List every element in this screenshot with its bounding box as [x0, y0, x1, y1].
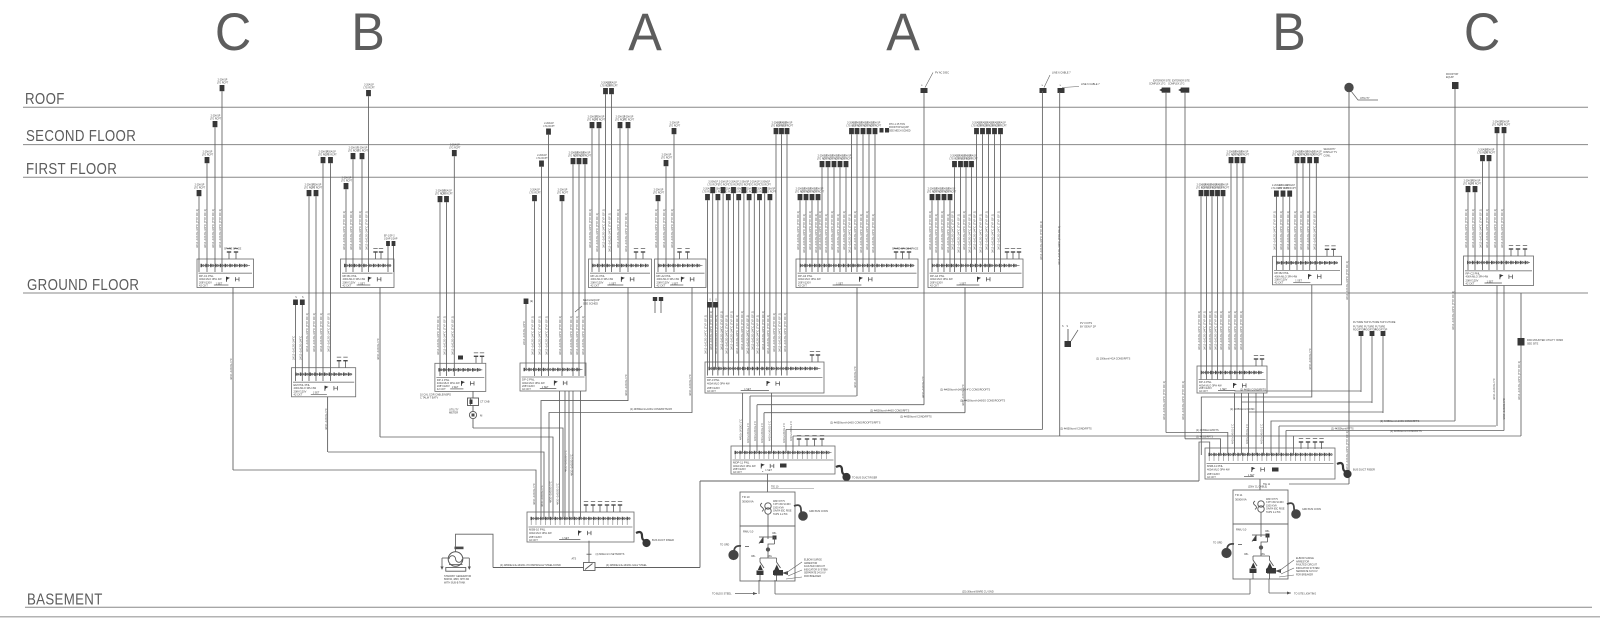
svg-text:3#12+1#12G-3/4"C (TYP OF 3): 3#12+1#12G-3/4"C (TYP OF 3) [704, 315, 708, 354]
svg-text:2-20A/1P: 2-20A/1P [211, 115, 221, 118]
svg-text:3#12+1#12G-3/4"C (TYP OF 3): 3#12+1#12G-3/4"C (TYP OF 3) [349, 211, 353, 250]
svg-text:1 SET: 1 SET [216, 282, 223, 285]
svg-text:GRD BUS CONN: GRD BUS CONN [1302, 508, 1321, 511]
svg-text:3#12+1#12G-3/4"C (TYP OF 3): 3#12+1#12G-3/4"C (TYP OF 3) [745, 315, 749, 354]
svg-text:TR 10: TR 10 [742, 495, 750, 499]
svg-text:2-20A/1P: 2-20A/1P [1285, 184, 1295, 187]
svg-text:LTG RCPT: LTG RCPT [841, 159, 853, 161]
svg-text:(2) 4#350 COND/RFTS: (2) 4#350 COND/RFTS [1240, 389, 1266, 392]
svg-text:3#12+1#12G-3/4"C (TYP OF 3): 3#12+1#12G-3/4"C (TYP OF 3) [1227, 311, 1231, 350]
svg-text:1/2HP 1/2HP: 1/2HP 1/2HP [384, 239, 398, 241]
svg-text:3#12+1#12G-3/4"C (TYP OF 3): 3#12+1#12G-3/4"C (TYP OF 3) [1345, 431, 1349, 470]
svg-text:3#12+1#12G-3/4"C (TYP OF 3): 3#12+1#12G-3/4"C (TYP OF 3) [1208, 311, 1212, 350]
svg-text:LTG RCPT: LTG RCPT [945, 192, 957, 194]
svg-text:1 SET: 1 SET [959, 282, 966, 285]
svg-text:(2) 4#350kcmil COND/RFTS: (2) 4#350kcmil COND/RFTS [1390, 430, 1422, 433]
svg-text:2-20A/1P: 2-20A/1P [607, 82, 617, 85]
svg-text:LTG RCPT: LTG RCPT [1218, 188, 1230, 190]
svg-text:LTG RCPT: LTG RCPT [995, 126, 1007, 128]
svg-text:3#12+1#12G-3/4"C (TYP OF 3): 3#12+1#12G-3/4"C (TYP OF 3) [327, 313, 331, 352]
svg-text:2-20A/1P: 2-20A/1P [624, 116, 634, 119]
svg-text:2-20A/1P: 2-20A/1P [967, 155, 977, 158]
svg-text:2-20A/1P: 2-20A/1P [312, 184, 322, 187]
svg-text:2-20A/1P: 2-20A/1P [1239, 151, 1249, 154]
svg-text:(4) 4#600kcmil+1#4/0G GALV STE: (4) 4#600kcmil+1#4/0G GALV STEEL [606, 564, 647, 567]
svg-text:WITH SUB-B TANK: WITH SUB-B TANK [444, 581, 466, 584]
svg-text:LTG RCPT: LTG RCPT [813, 192, 825, 194]
svg-text:(2) 4#350/RFTS: (2) 4#350/RFTS [1196, 436, 1214, 439]
svg-text:3#12+1#12G-3/4"C (TYP OF 3): 3#12+1#12G-3/4"C (TYP OF 3) [1485, 209, 1489, 248]
svg-text:3#12+1#12G-3/4"C (TYP OF 3): 3#12+1#12G-3/4"C (TYP OF 3) [358, 211, 362, 250]
svg-text:3#12+1#12G-3/4"C (TYP OF 3): 3#12+1#12G-3/4"C (TYP OF 3) [1306, 211, 1310, 250]
svg-text:3#12+1#12G-3/4"C (TYP OF 3): 3#12+1#12G-3/4"C (TYP OF 3) [985, 211, 989, 250]
svg-text:3#12+1#12G-3/4"C (TYP OF 3): 3#12+1#12G-3/4"C (TYP OF 3) [195, 209, 199, 248]
svg-text:1 SET: 1 SET [836, 282, 843, 285]
svg-text:RMU 10: RMU 10 [1236, 528, 1247, 532]
svg-text:3#12+1#12G-3/4"C (TYP OF 3): 3#12+1#12G-3/4"C (TYP OF 3) [602, 209, 606, 248]
svg-text:LTG RCPT: LTG RCPT [594, 120, 606, 122]
svg-text:2-20A/1P: 2-20A/1P [218, 79, 228, 82]
svg-text:ROOF: ROOF [25, 91, 65, 108]
svg-text:2-20A/1P: 2-20A/1P [1500, 121, 1510, 124]
svg-text:LTG RCPT: LTG RCPT [653, 193, 665, 195]
svg-text:C TALM T EATV: C TALM T EATV [420, 397, 438, 400]
svg-text:3#12+1#12G-3/4"C (TYP OF 3): 3#12+1#12G-3/4"C (TYP OF 3) [451, 316, 455, 355]
svg-text:3#12+1#12G-3/4"C (TYP OF 3): 3#12+1#12G-3/4"C (TYP OF 3) [725, 315, 729, 354]
svg-text:3#12+1#12G-3/4"C (TYP OF 3): 3#12+1#12G-3/4"C (TYP OF 3) [824, 214, 828, 253]
svg-text:3#12+1#12G-3/4"C (TYP OF 3): 3#12+1#12G-3/4"C (TYP OF 3) [808, 211, 812, 250]
svg-text:3#12+1#12G-3/4"C (TYP OF 3): 3#12+1#12G-3/4"C (TYP OF 3) [735, 315, 739, 354]
svg-text:4#10+1#10G-1"C: 4#10+1#10G-1"C [1245, 424, 1249, 444]
svg-text:TO SITE LIGHTING: TO SITE LIGHTING [1294, 593, 1316, 596]
svg-text:3#12+1#12G-3/4"C (TYP OF 3): 3#12+1#12G-3/4"C (TYP OF 3) [859, 214, 863, 253]
svg-text:LTG RCPT: LTG RCPT [341, 181, 353, 183]
svg-text:2-20A/1P: 2-20A/1P [1485, 149, 1495, 152]
svg-text:SEE MECH SCHED: SEE MECH SCHED [889, 129, 911, 132]
svg-text:LTG RCPT: LTG RCPT [363, 88, 375, 90]
svg-text:LTG RCPT: LTG RCPT [1311, 155, 1323, 157]
svg-text:LTG RCPT: LTG RCPT [449, 148, 461, 150]
svg-text:SPARE SPACE: SPARE SPACE [224, 248, 242, 251]
svg-text:3#12+1#12G-3/4"C (TYP OF 3): 3#12+1#12G-3/4"C (TYP OF 3) [1313, 211, 1317, 250]
svg-text:3#12+1#12G-3/4"C (TYP OF 3): 3#12+1#12G-3/4"C (TYP OF 3) [616, 209, 620, 248]
svg-text:42 CKT: 42 CKT [1466, 281, 1475, 285]
svg-text:2-20A/1P: 2-20A/1P [740, 181, 750, 184]
svg-text:4#10+1#10G-1"C: 4#10+1#10G-1"C [1260, 424, 1264, 444]
svg-text:4#10+1#10G-1"C: 4#10+1#10G-1"C [782, 423, 786, 443]
svg-text:C: C [215, 2, 251, 61]
svg-text:TO BUS DUCT RISER: TO BUS DUCT RISER [852, 477, 877, 480]
svg-text:3#12+1#12G-3/4"C (TYP OF 3): 3#12+1#12G-3/4"C (TYP OF 3) [766, 315, 770, 354]
svg-text:1 SET: 1 SET [1487, 280, 1494, 283]
svg-text:1 SET: 1 SET [1248, 474, 1255, 477]
svg-text:3#12+1#12G-3/4"C (TYP OF 3): 3#12+1#12G-3/4"C (TYP OF 3) [1219, 311, 1223, 350]
svg-text:(4) 4#600kcmil+1#4/0G 4"C/NSPD: (4) 4#600kcmil+1#4/0G 4"C/NSPD/GALV STEE… [500, 564, 561, 567]
svg-text:4#10+1#10G-1"C: 4#10+1#10G-1"C [853, 366, 857, 388]
svg-text:FUTURE TAP FUTURE TAP FUTURE: FUTURE TAP FUTURE TAP FUTURE [1353, 321, 1396, 324]
svg-text:3#12+1#12G-3/4"C (TYP OF 3): 3#12+1#12G-3/4"C (TYP OF 3) [1273, 211, 1277, 250]
svg-text:(2) 4#350kcmil COND: (2) 4#350kcmil COND [1230, 408, 1255, 411]
svg-text:42 CKT: 42 CKT [437, 387, 446, 391]
svg-text:4#10+1#10G-1"C: 4#10+1#10G-1"C [549, 481, 553, 503]
svg-text:3#12+1#12G-3/4"C (TYP OF 3): 3#12+1#12G-3/4"C (TYP OF 3) [1493, 209, 1497, 248]
svg-text:4#10+1#10G-1"C: 4#10+1#10G-1"C [376, 338, 380, 360]
svg-text:2-20A/1P: 2-20A/1P [729, 181, 739, 184]
svg-text:(4) 600kcmil 4 SETS/RFTS: (4) 600kcmil 4 SETS/RFTS [596, 553, 625, 556]
svg-text:(2) 4#350kcmil+1#3G COND/RFTS: (2) 4#350kcmil+1#3G COND/RFTS [1380, 420, 1420, 423]
svg-text:3#12+1#12G-3/4"C (TYP OF 3): 3#12+1#12G-3/4"C (TYP OF 3) [218, 209, 222, 248]
svg-text:1 SET: 1 SET [744, 388, 751, 391]
svg-text:PV AC DISC: PV AC DISC [935, 72, 949, 75]
svg-text:3#12+1#12G-3/4"C (TYP OF 3): 3#12+1#12G-3/4"C (TYP OF 3) [934, 214, 938, 253]
svg-text:2-20A/1P: 2-20A/1P [558, 189, 568, 192]
svg-text:3#12+1#12G-3/4"C (TYP OF 3): 3#12+1#12G-3/4"C (TYP OF 3) [1239, 311, 1243, 350]
svg-text:CBL: CBL [768, 556, 773, 558]
svg-text:4#10+1#10G-1"C: 4#10+1#10G-1"C [570, 454, 574, 476]
svg-text:2-20A/1P: 2-20A/1P [595, 116, 605, 119]
svg-text:S: S [295, 297, 297, 299]
svg-text:4#10+1#10G-1"C: 4#10+1#10G-1"C [789, 421, 793, 441]
svg-text:4#10+1#10G-1"C: 4#10+1#10G-1"C [739, 419, 743, 440]
svg-text:(2) 4#350kcmil/RFTS: (2) 4#350kcmil/RFTS [1196, 429, 1219, 432]
svg-text:CBL: CBL [1244, 554, 1249, 556]
svg-text:3#12+1#12G-3/4"C (TYP OF 3): 3#12+1#12G-3/4"C (TYP OF 3) [719, 311, 723, 350]
svg-text:3#12+1#12G-3/4"C (TYP OF 3): 3#12+1#12G-3/4"C (TYP OF 3) [305, 313, 309, 352]
svg-text:3#12+1#12G-3/4"C (TYP OF 3): 3#12+1#12G-3/4"C (TYP OF 3) [818, 211, 822, 250]
svg-text:(2) 100kcmil 4CA COND/RFTS: (2) 100kcmil 4CA COND/RFTS [1096, 358, 1131, 361]
svg-text:1 SET: 1 SET [358, 282, 365, 285]
svg-text:42 CKT: 42 CKT [1199, 389, 1208, 393]
svg-text:4#10+1#10G-1"C: 4#10+1#10G-1"C [760, 423, 764, 443]
svg-text:PV 3 KITS: PV 3 KITS [1080, 321, 1092, 325]
svg-text:LTG RCPT: LTG RCPT [760, 185, 772, 187]
svg-text:42 CKT: 42 CKT [522, 387, 531, 391]
svg-text:3#12+1#12G-3/4"C (TYP OF 3): 3#12+1#12G-3/4"C (TYP OF 3) [802, 214, 806, 253]
svg-text:LTG RCPT: LTG RCPT [325, 155, 337, 157]
svg-text:(2) 4#350kcmil COND/RFTS: (2) 4#350kcmil COND/RFTS [1060, 428, 1092, 431]
svg-text:3#12+1#12G-3/4"C (TYP OF 3): 3#12+1#12G-3/4"C (TYP OF 3) [581, 316, 585, 355]
svg-text:3#12+1#12G-3/4"C (TYP OF 3): 3#12+1#12G-3/4"C (TYP OF 3) [203, 209, 207, 248]
svg-text:C: C [1464, 2, 1500, 61]
svg-text:42 CKT: 42 CKT [733, 470, 742, 474]
svg-text:LTG RCPT: LTG RCPT [311, 188, 323, 190]
svg-text:A: A [886, 2, 920, 61]
svg-text:EF-1 EF-2: EF-1 EF-2 [384, 236, 395, 238]
svg-text:3#12+1#12G-3/4"C (TYP OF 3): 3#12+1#12G-3/4"C (TYP OF 3) [979, 214, 983, 253]
svg-text:3#12+1#12G-3/4"C (TYP OF 3): 3#12+1#12G-3/4"C (TYP OF 3) [624, 213, 628, 252]
svg-text:2-20A/1P: 2-20A/1P [358, 147, 368, 150]
svg-text:RMU 10: RMU 10 [743, 530, 754, 534]
svg-text:S: S [715, 299, 717, 301]
svg-text:42 CKT: 42 CKT [707, 389, 716, 393]
svg-text:4#10+1#10G-1"C: 4#10+1#10G-1"C [961, 384, 965, 406]
svg-text:3#12+1#12G-3/4"C (TYP OF 3): 3#12+1#12G-3/4"C (TYP OF 3) [865, 211, 869, 250]
svg-text:TIE 10: TIE 10 [771, 486, 779, 489]
svg-text:1 SET: 1 SET [765, 469, 772, 472]
svg-text:2-20A/1P: 2-20A/1P [537, 154, 547, 157]
svg-text:3#12+1#12G-3/4"C (TYP OF 3): 3#12+1#12G-3/4"C (TYP OF 3) [1299, 211, 1303, 250]
svg-text:LTG RCPT: LTG RCPT [782, 126, 794, 128]
svg-text:2-20A/1P: 2-20A/1P [766, 188, 776, 191]
svg-text:(E): (E) [530, 301, 533, 303]
svg-text:4#10+1#10G-1"C: 4#10+1#10G-1"C [556, 483, 560, 505]
svg-text:400A MLO 3PH 4W: 400A MLO 3PH 4W [1466, 275, 1489, 279]
svg-text:3#12+1#12G-3/4"C (TYP OF 3): 3#12+1#12G-3/4"C (TYP OF 3) [997, 211, 1001, 250]
svg-text:BUS DUCT RISER: BUS DUCT RISER [652, 538, 674, 542]
svg-text:GRD BUS CONN: GRD BUS CONN [809, 510, 828, 513]
svg-text:3#12+1#12G-3/4"C (TYP OF 3): 3#12+1#12G-3/4"C (TYP OF 3) [654, 209, 658, 248]
svg-text:2-20A/1P: 2-20A/1P [783, 122, 793, 125]
svg-text:3#12+1#12G-3/4"C (TYP OF 3): 3#12+1#12G-3/4"C (TYP OF 3) [756, 315, 760, 354]
svg-text:LTG RCPT: LTG RCPT [1499, 125, 1511, 127]
svg-text:4#10+1#10G-1"C: 4#10+1#10G-1"C [753, 421, 757, 441]
svg-text:3#12+1#12G-3/4"C (TYP OF 3): 3#12+1#12G-3/4"C (TYP OF 3) [761, 311, 765, 350]
svg-text:42 CKT: 42 CKT [343, 283, 352, 287]
svg-text:3#12+1#12G-3/4"C (TYP OF 3): 3#12+1#12G-3/4"C (TYP OF 3) [830, 211, 834, 250]
svg-text:2#12+1#12G-3/4"C: 2#12+1#12G-3/4"C [299, 336, 303, 360]
svg-text:2-20A/1P: 2-20A/1P [326, 151, 336, 154]
svg-text:2#12+1#12G-3/4"C: 2#12+1#12G-3/4"C [522, 321, 526, 345]
svg-text:2-20A/1P: 2-20A/1P [708, 181, 718, 184]
svg-text:2-20A/1P: 2-20A/1P [654, 189, 664, 192]
svg-text:3#12+1#12G-3/4"C (TYP OF 3): 3#12+1#12G-3/4"C (TYP OF 3) [951, 211, 955, 250]
svg-text:TAPS 2-2.5%: TAPS 2-2.5% [773, 513, 788, 516]
svg-text:400A MLO 3PH 4W: 400A MLO 3PH 4W [294, 386, 317, 390]
svg-text:S: S [302, 297, 304, 299]
svg-text:3#12+1#12G-3/4"C (TYP OF 3): 3#12+1#12G-3/4"C (TYP OF 3) [1057, 226, 1061, 265]
svg-text:3000KVA: 3000KVA [1235, 498, 1247, 502]
svg-text:(2) 4#600kcmil+1#3/0G-4"C CON: (2) 4#600kcmil+1#3/0G-4"C COND/ROOFTS [940, 389, 990, 392]
svg-text:3#12+1#12G-3/4"C (TYP OF 3): 3#12+1#12G-3/4"C (TYP OF 3) [342, 211, 346, 250]
svg-text:(2) 4#350kcmil+1#3G COND/ROOFT: (2) 4#350kcmil+1#3G COND/ROOFTS/RFTS [830, 422, 881, 425]
svg-text:42 CKT: 42 CKT [591, 283, 600, 287]
svg-text:UTILITY: UTILITY [1360, 96, 1370, 100]
svg-text:B: B [351, 2, 385, 61]
svg-text:3#12+1#12G-3/4"C (TYP OF 3): 3#12+1#12G-3/4"C (TYP OF 3) [365, 211, 369, 250]
svg-text:2-20A/1P: 2-20A/1P [1312, 151, 1322, 154]
svg-text:3#12+1#12G-3/4"C (TYP OF 3): 3#12+1#12G-3/4"C (TYP OF 3) [1464, 209, 1468, 248]
svg-text:BASEMENT: BASEMENT [27, 591, 103, 608]
svg-text:3#12+1#12G-3/4"C (TYP OF 3): 3#12+1#12G-3/4"C (TYP OF 3) [588, 209, 592, 248]
svg-text:42 CKT: 42 CKT [1275, 281, 1284, 285]
svg-text:2-20A/1P: 2-20A/1P [662, 154, 672, 157]
svg-text:3#12+1#12G-3/4"C (TYP OF 3): 3#12+1#12G-3/4"C (TYP OF 3) [670, 209, 674, 248]
svg-text:BY GEN F 2P: BY GEN F 2P [1080, 324, 1096, 328]
svg-text:M: M [480, 414, 483, 418]
svg-text:400A MLO 3PH 4W: 400A MLO 3PH 4W [707, 381, 730, 385]
svg-text:42 CKT: 42 CKT [1207, 475, 1216, 479]
svg-text:2-20A/1P: 2-20A/1P [760, 181, 770, 184]
svg-text:LTG RCPT: LTG RCPT [661, 158, 673, 160]
svg-text:3#12+1#12G-3/4"C (TYP OF 3): 3#12+1#12G-3/4"C (TYP OF 3) [211, 209, 215, 248]
svg-text:TR 11: TR 11 [1235, 493, 1243, 497]
svg-text:4#10+1#10G-1"C: 4#10+1#10G-1"C [532, 483, 536, 505]
svg-text:3#12+1#12G-3/4"C (TYP OF 3): 3#12+1#12G-3/4"C (TYP OF 3) [778, 313, 782, 352]
svg-text:3#12+1#12G-3/4"C (TYP OF 3): 3#12+1#12G-3/4"C (TYP OF 3) [853, 211, 857, 250]
svg-text:MECH EQUIP: MECH EQUIP [583, 298, 600, 302]
svg-text:400A MLO 3PH 4W: 400A MLO 3PH 4W [529, 531, 552, 535]
svg-text:(2) 4#350kcmil+1#3G COND/RFTS/: (2) 4#350kcmil+1#3G COND/RFTS/WX [630, 408, 672, 411]
svg-text:4#10+1#10G-1"C: 4#10+1#10G-1"C [624, 374, 628, 396]
svg-text:3#12+1#12G-3/4"C (TYP OF 3): 3#12+1#12G-3/4"C (TYP OF 3) [531, 316, 535, 355]
svg-text:BUS DUCT RISER: BUS DUCT RISER [1353, 468, 1375, 472]
svg-text:SEE SITE: SEE SITE [1527, 342, 1539, 345]
svg-text:LTG RCPT: LTG RCPT [441, 194, 453, 196]
svg-text:COMPLEX LTG: COMPLEX LTG [1149, 84, 1166, 86]
svg-text:2-20A/1P: 2-20A/1P [195, 184, 205, 187]
svg-text:LTG RCPT: LTG RCPT [1470, 184, 1482, 186]
svg-text:4#10+1#10G-1"C: 4#10+1#10G-1"C [1492, 378, 1496, 400]
svg-text:3#12+1#12G-3/4"C (TYP OF 3): 3#12+1#12G-3/4"C (TYP OF 3) [575, 316, 579, 355]
svg-text:3#12+1#12G-3/4"C (TYP OF 3): 3#12+1#12G-3/4"C (TYP OF 3) [1214, 311, 1218, 350]
svg-text:2-20A/1P: 2-20A/1P [670, 122, 680, 125]
svg-text:1 SET: 1 SET [672, 282, 679, 285]
svg-text:3#12+1#12G-3/4"C (TYP OF 3): 3#12+1#12G-3/4"C (TYP OF 3) [558, 316, 562, 355]
svg-text:LTG RCPT: LTG RCPT [1238, 155, 1250, 157]
svg-text:4#10+1#10G-1"C: 4#10+1#10G-1"C [540, 485, 544, 507]
svg-text:S: S [1067, 326, 1069, 328]
svg-text:3#12+1#12G-3/4"C (TYP OF 3): 3#12+1#12G-3/4"C (TYP OF 3) [319, 313, 323, 352]
svg-text:4#10+1#10G-1"C: 4#10+1#10G-1"C [746, 423, 750, 443]
svg-text:TAPS 2-2.5%: TAPS 2-2.5% [1266, 511, 1281, 514]
svg-text:CBL: CBL [1265, 531, 1270, 533]
svg-text:(2) 4#500kcmil+4#3G COND/RFTS: (2) 4#500kcmil+4#3G COND/RFTS [870, 410, 910, 413]
svg-text:3#12+1#12G-3/4"C (TYP OF 3): 3#12+1#12G-3/4"C (TYP OF 3) [1203, 311, 1207, 350]
svg-text:LTG RCPT: LTG RCPT [357, 151, 369, 153]
svg-text:LTG RCPT: LTG RCPT [194, 188, 206, 190]
svg-text:3#12+1#12G-3/4"C (TYP OF 3): 3#12+1#12G-3/4"C (TYP OF 3) [991, 214, 995, 253]
svg-text:3#12+1#12G-3/4"C (TYP OF 3): 3#12+1#12G-3/4"C (TYP OF 3) [436, 316, 440, 355]
svg-text:3#12+1#12G-3/4"C (TYP OF 3): 3#12+1#12G-3/4"C (TYP OF 3) [545, 316, 549, 355]
svg-text:3#12+1#12G-3/4"C (TYP OF 3): 3#12+1#12G-3/4"C (TYP OF 3) [1039, 221, 1043, 260]
svg-text:2#12+1#12G-3/4"C: 2#12+1#12G-3/4"C [292, 336, 296, 360]
svg-text:4#10+1#10G-1"C: 4#10+1#10G-1"C [564, 450, 568, 472]
svg-text:2-20A/1P: 2-20A/1P [544, 122, 554, 125]
svg-text:3#12+1#12G-3/4"C (TYP OF 3): 3#12+1#12G-3/4"C (TYP OF 3) [946, 214, 950, 253]
svg-text:3#12+1#12G-3/4"C (TYP OF 3): 3#12+1#12G-3/4"C (TYP OF 3) [772, 313, 776, 352]
svg-text:SEE SCHED: SEE SCHED [583, 301, 598, 305]
svg-text:LTG RCPT: LTG RCPT [669, 126, 681, 128]
svg-text:2-20A/1P: 2-20A/1P [342, 177, 352, 180]
svg-text:CBL: CBL [751, 556, 756, 558]
svg-text:3#12+1#12G-3/4"C (TYP OF 3): 3#12+1#12G-3/4"C (TYP OF 3) [714, 315, 718, 354]
svg-text:1 SET: 1 SET [1295, 280, 1302, 283]
svg-text:3000KVA: 3000KVA [742, 500, 754, 504]
svg-text:3#12+1#12G-3/4"C (TYP OF 3): 3#12+1#12G-3/4"C (TYP OF 3) [1197, 311, 1201, 350]
svg-text:4#10+1#10G-1"C: 4#10+1#10G-1"C [1308, 348, 1312, 370]
svg-text:LTG RCPT: LTG RCPT [765, 192, 777, 194]
svg-text:EXTERIOR SITE: EXTERIOR SITE [1153, 80, 1171, 82]
svg-text:S: S [1062, 326, 1064, 328]
svg-text:3#12+1#12G-3/4"C (TYP OF 3): 3#12+1#12G-3/4"C (TYP OF 3) [538, 316, 542, 355]
svg-text:3#12+1#12G-3/4"C (TYP OF 3): 3#12+1#12G-3/4"C (TYP OF 3) [443, 316, 447, 355]
svg-text:3#12+1#12G-3/4"C (TYP OF 3): 3#12+1#12G-3/4"C (TYP OF 3) [730, 311, 734, 350]
svg-text:2-20A/1P: 2-20A/1P [871, 122, 881, 125]
svg-text:3#12+1#12G-3/4"C (TYP OF 3): 3#12+1#12G-3/4"C (TYP OF 3) [595, 213, 599, 252]
svg-text:3#12+1#12G-3/4"C (TYP OF 3): 3#12+1#12G-3/4"C (TYP OF 3) [1451, 291, 1455, 330]
svg-text:42 CKT: 42 CKT [199, 283, 208, 287]
svg-text:3#12+1#12G-3/4"C (TYP OF 3): 3#12+1#12G-3/4"C (TYP OF 3) [1279, 211, 1283, 250]
svg-text:LTG RCPT: LTG RCPT [529, 193, 541, 195]
svg-text:3#12+1#12G-3/4"C (TYP OF 3): 3#12+1#12G-3/4"C (TYP OF 3) [1517, 361, 1521, 400]
svg-text:2-20A/1P: 2-20A/1P [996, 122, 1006, 125]
svg-text:3#12+1#12G-3/4"C (TYP OF 3): 3#12+1#12G-3/4"C (TYP OF 3) [928, 211, 932, 250]
svg-text:TO GRD: TO GRD [720, 544, 730, 547]
svg-text:EXTERIOR SITE: EXTERIOR SITE [1172, 80, 1190, 82]
svg-text:3#12+1#12G-3/4"C (TYP OF 3): 3#12+1#12G-3/4"C (TYP OF 3) [608, 213, 612, 252]
svg-text:LTG RCPT: LTG RCPT [580, 156, 592, 158]
svg-text:42 CKT: 42 CKT [930, 283, 939, 287]
svg-text:GROUND FLOOR: GROUND FLOOR [27, 277, 139, 294]
svg-text:S: S [1042, 85, 1044, 87]
svg-text:FDR BREAKER: FDR BREAKER [1296, 574, 1313, 577]
svg-text:4#10+1#10G-1"C: 4#10+1#10G-1"C [229, 358, 233, 380]
svg-text:2-20A/1P: 2-20A/1P [203, 151, 213, 154]
svg-text:LTG RCPT: LTG RCPT [210, 119, 222, 121]
svg-text:EQUIP: EQUIP [1446, 76, 1454, 79]
svg-text:S: S [709, 299, 711, 301]
svg-text:1 SET: 1 SET [452, 386, 459, 389]
svg-text:LTG RCPT: LTG RCPT [202, 155, 214, 157]
svg-text:ATS: ATS [572, 558, 577, 561]
svg-text:3#12+1#12G-3/4"C (TYP OF 3): 3#12+1#12G-3/4"C (TYP OF 3) [968, 214, 972, 253]
svg-text:A: A [628, 2, 662, 61]
svg-text:42 CKT: 42 CKT [294, 393, 303, 397]
svg-text:3#12+1#12G-3/4"C (TYP OF 3): 3#12+1#12G-3/4"C (TYP OF 3) [940, 211, 944, 250]
svg-text:LTG RCPT: LTG RCPT [1285, 188, 1297, 190]
svg-text:TO BLDG STEEL: TO BLDG STEEL [712, 593, 732, 596]
svg-text:2-20A/1P: 2-20A/1P [581, 152, 591, 155]
svg-text:4#10+1#10G-1"C: 4#10+1#10G-1"C [768, 421, 772, 441]
svg-text:3#12+1#12G-3/4"C (TYP OF 3): 3#12+1#12G-3/4"C (TYP OF 3) [1479, 209, 1483, 248]
svg-text:3#12+1#12G-3/4"C (TYP OF 3): 3#12+1#12G-3/4"C (TYP OF 3) [1233, 311, 1237, 350]
svg-text:3#12+1#12G-3/4"C (TYP OF 3): 3#12+1#12G-3/4"C (TYP OF 3) [848, 214, 852, 253]
svg-text:SECOND FLOOR: SECOND FLOOR [26, 128, 136, 145]
svg-text:4#10+1#10G-1"C: 4#10+1#10G-1"C [921, 376, 925, 398]
svg-text:400A MLO 3PH 4W: 400A MLO 3PH 4W [1207, 467, 1230, 471]
svg-text:3#12+1#12G-3/4"C (TYP OF 3): 3#12+1#12G-3/4"C (TYP OF 3) [842, 211, 846, 250]
svg-text:2-20A/1P: 2-20A/1P [530, 189, 540, 192]
svg-text:FDR BREAKER: FDR BREAKER [804, 575, 821, 578]
svg-text:3#12+1#12G-3/4"C (TYP OF 3): 3#12+1#12G-3/4"C (TYP OF 3) [796, 211, 800, 250]
svg-text:TO GRD: TO GRD [1213, 542, 1223, 545]
svg-text:LTG RCPT: LTG RCPT [606, 86, 618, 88]
svg-text:CBL: CBL [772, 533, 777, 535]
svg-text:3#12+1#12G-3/4"C (TYP OF 3): 3#12+1#12G-3/4"C (TYP OF 3) [783, 313, 787, 352]
svg-text:2-20A/1P: 2-20A/1P [364, 84, 374, 87]
svg-text:LTG RCPT: LTG RCPT [536, 158, 548, 160]
svg-text:1 SET: 1 SET [562, 537, 569, 540]
svg-text:3#12+1#12G-3/4"C (TYP OF 3): 3#12+1#12G-3/4"C (TYP OF 3) [569, 316, 573, 355]
svg-text:42 CKT: 42 CKT [657, 283, 666, 287]
svg-text:3#12+1#12G-3/4"C (TYP OF 3): 3#12+1#12G-3/4"C (TYP OF 3) [973, 211, 977, 250]
svg-text:ROOFTOP: ROOFTOP [1375, 329, 1388, 332]
svg-text:COMPLEX LTG: COMPLEX LTG [1168, 84, 1185, 86]
svg-text:LINE 6 CABLE 7: LINE 6 CABLE 7 [1081, 83, 1100, 86]
svg-text:3#12+1#12G-3/4"C (TYP OF 3): 3#12+1#12G-3/4"C (TYP OF 3) [1500, 209, 1504, 248]
svg-text:FIRST FLOOR: FIRST FLOOR [26, 161, 117, 178]
svg-text:(2) 4#350kcmil COND/RFTS: (2) 4#350kcmil COND/RFTS [900, 416, 932, 419]
svg-text:1 SET: 1 SET [609, 282, 616, 285]
svg-text:42 CKT: 42 CKT [529, 538, 538, 542]
svg-text:2-20A/1P: 2-20A/1P [719, 181, 729, 184]
svg-text:4#10+1#10G-1"C: 4#10+1#10G-1"C [688, 374, 692, 396]
svg-text:1 SET: 1 SET [542, 386, 549, 389]
svg-text:CT CAB: CT CAB [480, 400, 490, 404]
svg-text:3#12+1#12G-3/4"C (TYP OF 3): 3#12+1#12G-3/4"C (TYP OF 3) [957, 214, 961, 253]
svg-text:2-20A/1P: 2-20A/1P [1471, 180, 1481, 183]
svg-text:2-20A/1P: 2-20A/1P [450, 144, 460, 147]
